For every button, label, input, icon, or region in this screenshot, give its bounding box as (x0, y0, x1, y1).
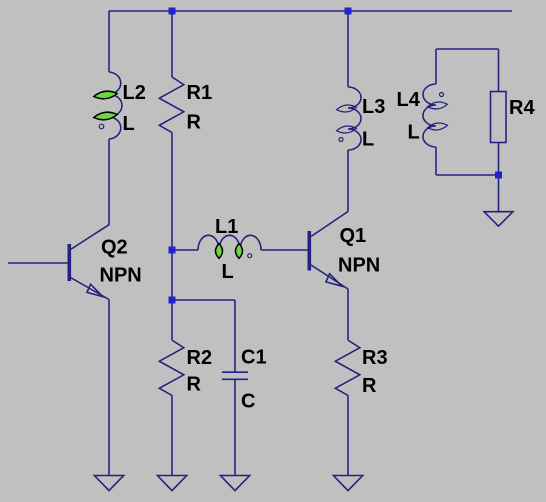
capacitor C1 bottom plate (222, 378, 248, 380)
inductor L1 phase dot (248, 254, 252, 258)
junction tank bottom (495, 172, 502, 179)
inductor L4 bead lower (427, 122, 448, 131)
wire R4 bottom lead (498, 143, 500, 176)
svg-text:C: C (241, 391, 255, 413)
inductor L2 phase dot (99, 124, 104, 129)
resistor R4 body (491, 92, 507, 143)
ground under Q2 (94, 476, 123, 491)
inductor L4 phase dot (440, 93, 444, 97)
svg-text:R: R (187, 374, 202, 396)
transistor Q2 collector diagonal (71, 225, 110, 250)
wire R3 to ground (347, 395, 349, 476)
inductor L3 phase dot (339, 138, 343, 142)
junction top-left (169, 8, 176, 15)
ground under C1 (220, 476, 249, 491)
ground under R2 (157, 476, 186, 491)
wire Q1 emitter to R3 (347, 289, 349, 340)
wire L4 bottom lead (435, 147, 437, 175)
wire left branch upper (108, 11, 110, 72)
resistor R3 zigzag (335, 340, 360, 395)
svg-text:Q1: Q1 (340, 225, 367, 247)
transistor Q2 emitter arrow (87, 284, 103, 296)
svg-text:L3: L3 (362, 96, 385, 118)
junction node C1 (169, 297, 176, 304)
ground right (484, 212, 513, 227)
svg-text:R2: R2 (187, 347, 213, 369)
inductor L4 bead upper (427, 101, 448, 110)
svg-text:Q2: Q2 (101, 237, 128, 259)
inductor L1 green bead left (216, 244, 223, 259)
inductor L3 body (348, 87, 361, 150)
resistor R1 zigzag (159, 77, 184, 133)
wire L1 right to Q1 base (261, 249, 308, 251)
transistor Q2 emitter diagonal (71, 278, 110, 300)
svg-text:NPN: NPN (338, 255, 380, 277)
svg-text:R4: R4 (509, 97, 535, 119)
svg-text:L: L (123, 113, 135, 135)
inductor L3 bead lower (336, 125, 357, 134)
transistor Q1 base bar (307, 231, 311, 271)
transistor Q1 collector diagonal (311, 212, 348, 237)
wire Q2 base lead (8, 262, 68, 264)
wire L4 top lead (435, 49, 437, 84)
resistor R2 zigzag (159, 340, 184, 395)
wire R2 to ground (171, 395, 173, 476)
wire tank to ground (498, 175, 500, 212)
inductor L3 bead upper (336, 104, 357, 113)
svg-text:L: L (408, 121, 420, 143)
inductor L1 green bead right (236, 244, 243, 259)
transistor Q2 base bar (68, 244, 72, 281)
wire C1 top lead (234, 300, 236, 372)
wire node to C1 horizontal (172, 299, 235, 301)
svg-text:R3: R3 (362, 347, 388, 369)
junction top-right (345, 8, 352, 15)
inductor L2 body (109, 72, 122, 139)
svg-text:R: R (187, 111, 202, 133)
wire tank bottom (436, 174, 499, 176)
wire R1 branch top (171, 11, 173, 77)
wire C1 bottom lead (234, 379, 236, 476)
wire L3 branch top (347, 11, 349, 87)
inductor L4 body (423, 84, 436, 147)
svg-text:R: R (362, 375, 377, 397)
wire node to L1 left (172, 249, 198, 251)
svg-text:C1: C1 (241, 347, 267, 369)
inductor L2 green bead lower (93, 111, 117, 121)
svg-text:L4: L4 (397, 89, 421, 111)
transistor Q1 emitter arrow (326, 274, 342, 286)
svg-text:NPN: NPN (100, 265, 142, 287)
capacitor C1 top plate (222, 371, 248, 373)
wire R4 top lead (498, 49, 500, 92)
wire top rail (109, 10, 512, 12)
wire tank top (436, 48, 499, 50)
wire R1 to R2 vertical (171, 133, 173, 341)
ground under R3 (333, 476, 362, 491)
inductor L1 body (198, 235, 261, 250)
junction node L1 (169, 247, 176, 254)
svg-text:L1: L1 (215, 216, 238, 238)
transistor Q1 emitter diagonal (311, 265, 348, 289)
wire L3 to Q1 collector (347, 150, 349, 212)
svg-text:L: L (222, 261, 234, 283)
svg-text:R1: R1 (187, 82, 213, 104)
svg-text:L: L (362, 129, 374, 151)
inductor L2 green bead upper (93, 90, 117, 100)
svg-text:L2: L2 (123, 82, 146, 104)
wire L2 to Q2 collector (108, 139, 110, 225)
wire Q2 emitter to ground (108, 300, 110, 477)
